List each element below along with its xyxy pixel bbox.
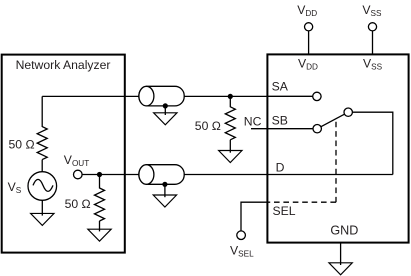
switch pole (diagonal)	[317, 112, 348, 129]
switch contact SA circle	[313, 92, 321, 100]
wire: coax 1 to SA pin	[184, 95, 313, 97]
label: SB	[272, 114, 288, 128]
wire: SB inside	[251, 128, 314, 130]
label: 50 ohm source resistor	[9, 137, 35, 151]
ground (coax 2 shield)	[153, 195, 176, 207]
svg-text:VOUT: VOUT	[64, 153, 89, 168]
wire: coax 2 shield to ground	[164, 184, 166, 197]
box: switch IC	[267, 54, 408, 242]
label: SEL	[273, 204, 296, 218]
wire: source top vertical	[41, 96, 43, 127]
wire: SA inside	[267, 95, 313, 97]
label: VDD top	[297, 3, 317, 18]
svg-text:NC: NC	[244, 115, 262, 129]
switch contact SB circle	[313, 125, 321, 133]
label: GND	[330, 223, 358, 237]
ground (below VS)	[31, 213, 54, 225]
terminal VSEL circle	[237, 231, 246, 240]
label: VOUT	[64, 153, 89, 168]
label: VDD pin	[298, 57, 318, 72]
dashed control line vertical	[335, 122, 337, 203]
wire: source output to coax 1	[42, 95, 139, 97]
coax cable 1 body	[139, 86, 184, 106]
label: NC	[244, 115, 262, 129]
wire: coax 2 to D pin	[184, 174, 393, 176]
svg-text:VSEL: VSEL	[230, 244, 254, 259]
svg-text:SEL: SEL	[273, 204, 296, 218]
wire: load resistor to ground	[99, 221, 101, 231]
svg-text:SB: SB	[272, 114, 288, 128]
label: 50 ohm load resistor	[65, 197, 91, 211]
ground (termination resistor)	[219, 151, 242, 163]
svg-text:GND: GND	[330, 223, 358, 237]
label: VSS top	[362, 3, 382, 18]
switch common circle	[344, 108, 352, 116]
terminal VOUT circle	[74, 170, 83, 179]
svg-text:VSS: VSS	[362, 3, 382, 18]
sine wave inside VS	[33, 179, 53, 191]
node: coax 1 shield junction	[163, 103, 168, 108]
pin VDD circle	[305, 23, 313, 31]
label: VSEL	[230, 244, 254, 259]
label: Network Analyzer	[16, 58, 111, 72]
label: VS	[8, 180, 22, 195]
wire: resistor to Vs source	[41, 160, 43, 172]
svg-text:SA: SA	[272, 79, 289, 93]
wire: SEL pin	[241, 202, 268, 231]
svg-text:VDD: VDD	[298, 57, 318, 72]
wire: Vs to ground	[41, 200, 43, 215]
node: SA junction	[228, 94, 233, 99]
wire: termination resistor to ground	[229, 140, 231, 153]
svg-text:Network Analyzer: Network Analyzer	[16, 58, 111, 72]
wire: VDD pin	[308, 31, 310, 55]
svg-text:VSS: VSS	[363, 57, 383, 72]
svg-text:50 Ω: 50 Ω	[65, 197, 91, 211]
coax cable 2 end ellipse	[139, 165, 154, 185]
ground (below load resistor)	[88, 229, 111, 241]
source VS circle	[28, 172, 57, 201]
label: 50 ohm termination resistor	[195, 119, 221, 133]
node: coax 2 shield junction	[162, 182, 167, 187]
svg-text:50 Ω: 50 Ω	[9, 137, 35, 151]
wire: Vout junction down	[99, 175, 101, 189]
wire: GND pin	[340, 243, 342, 265]
resistor 50 ohm (source)	[37, 127, 47, 160]
wire: Vout to coax 2	[82, 174, 140, 176]
box: Network Analyzer	[2, 55, 125, 253]
ground (GND pin)	[329, 263, 352, 275]
wire: switch common to D	[352, 112, 392, 174]
coax cable 2 body	[139, 165, 184, 185]
ground (coax 1 shield)	[154, 113, 177, 125]
coax cable 1 end ellipse	[139, 86, 154, 106]
node: Vout junction	[97, 172, 102, 177]
label: D	[276, 160, 285, 174]
dashed control line horizontal	[268, 201, 336, 203]
wire: coax 1 shield to ground	[164, 106, 166, 115]
wire: SA junction down	[229, 96, 231, 107]
resistor 50 ohm (Vout load)	[95, 188, 105, 221]
label: SA	[272, 79, 289, 93]
wire: VSS pin	[372, 31, 374, 55]
svg-text:VS: VS	[8, 180, 22, 195]
label: VSS pin	[363, 57, 383, 72]
svg-text:50 Ω: 50 Ω	[195, 119, 221, 133]
svg-text:VDD: VDD	[297, 3, 317, 18]
svg-text:D: D	[276, 160, 285, 174]
pin VSS circle	[368, 23, 376, 31]
resistor 50 ohm (termination)	[225, 107, 235, 140]
